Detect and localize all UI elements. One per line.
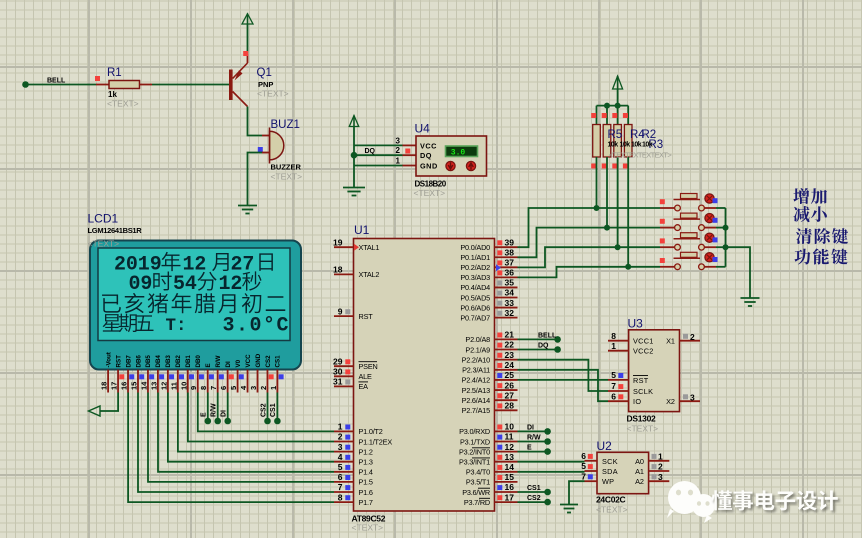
svg-text:DI: DI bbox=[225, 361, 232, 367]
svg-text:P1.7: P1.7 bbox=[359, 498, 373, 507]
svg-text:7: 7 bbox=[338, 482, 343, 492]
svg-text:P0.2/AD2: P0.2/AD2 bbox=[460, 263, 490, 272]
LCD1 pin 1 CS1 bbox=[269, 355, 284, 393]
U2 pin 1 A0 bbox=[649, 452, 670, 462]
svg-text:P2.5/A13: P2.5/A13 bbox=[462, 386, 491, 395]
watermark text shadow bbox=[713, 492, 839, 512]
U1 pin 16 P3.6 bbox=[495, 482, 518, 492]
svg-text:<TEXT>: <TEXT> bbox=[414, 188, 446, 198]
ground below U4 bbox=[343, 188, 365, 196]
svg-text:29: 29 bbox=[333, 356, 343, 366]
node DI below LCD bbox=[221, 393, 232, 425]
svg-text:BELL: BELL bbox=[538, 332, 557, 339]
U3 pin 1 bbox=[608, 341, 629, 351]
svg-text:P3.7/RD: P3.7/RD bbox=[464, 498, 490, 507]
svg-text:14: 14 bbox=[139, 381, 148, 390]
wire bus to ground bbox=[726, 247, 751, 297]
LCD1 pin 7 R/W bbox=[209, 355, 224, 392]
svg-text:<TEXT>: <TEXT> bbox=[257, 89, 289, 99]
wire LCD DB3 to P1.3 bbox=[168, 393, 334, 462]
wire LCD RST to terminal bbox=[100, 393, 118, 412]
wire P0.1 to key2 row bbox=[518, 228, 608, 258]
svg-text:7: 7 bbox=[611, 381, 616, 391]
U1 pin 13 P3.3 bbox=[495, 452, 518, 462]
svg-text:<TEXT>: <TEXT> bbox=[107, 99, 139, 109]
svg-text:BUZ1: BUZ1 bbox=[271, 119, 300, 131]
terminal arrow left bbox=[89, 406, 101, 416]
svg-text:P1.6: P1.6 bbox=[359, 488, 373, 497]
label decrease key bbox=[793, 206, 826, 222]
svg-text:P3.4/T0: P3.4/T0 bbox=[466, 468, 490, 477]
U1 pin 23 P2.2 bbox=[495, 350, 518, 360]
svg-text:5: 5 bbox=[229, 386, 238, 390]
svg-text:P3.3/INT1: P3.3/INT1 bbox=[459, 458, 490, 467]
wire LCD DB7 to P1.7 bbox=[128, 393, 334, 503]
svg-text:34: 34 bbox=[505, 288, 515, 298]
svg-text:GND: GND bbox=[420, 161, 438, 170]
svg-text:P0.7/AD7: P0.7/AD7 bbox=[460, 313, 490, 322]
svg-text:10k: 10k bbox=[608, 142, 619, 149]
U2 pin 7 WP bbox=[581, 471, 597, 481]
svg-text:54: 54 bbox=[173, 273, 197, 296]
svg-text:VCC1: VCC1 bbox=[633, 337, 654, 346]
U1 pin 7 P1.6 bbox=[334, 482, 354, 492]
svg-text:P2.3/A11: P2.3/A11 bbox=[462, 366, 490, 375]
svg-text:36: 36 bbox=[505, 268, 515, 278]
svg-text:SDA: SDA bbox=[602, 467, 618, 476]
svg-text:V0: V0 bbox=[235, 359, 242, 367]
svg-text:10: 10 bbox=[179, 382, 188, 390]
U3 pin 2 X1 bbox=[680, 332, 701, 342]
label increase key bbox=[793, 188, 827, 204]
ground below BUZ1 bbox=[238, 206, 257, 214]
U1 pin 31 EA bbox=[333, 377, 353, 387]
U1 right pin names bbox=[459, 243, 490, 507]
svg-text:8: 8 bbox=[338, 492, 343, 502]
svg-text:2: 2 bbox=[690, 332, 695, 342]
svg-text:CS2: CS2 bbox=[265, 355, 272, 368]
U1 pin 25 P2.4 bbox=[495, 370, 518, 380]
U1 pin 12 P3.2 bbox=[495, 442, 518, 452]
svg-text:P1.1/T2EX: P1.1/T2EX bbox=[359, 437, 393, 446]
svg-text:U3: U3 bbox=[628, 317, 644, 331]
LCD line1 date bbox=[114, 252, 273, 277]
LCD1 pin 9 DB0 bbox=[189, 355, 204, 393]
svg-text:DB0: DB0 bbox=[195, 355, 202, 368]
op-amp U3 body (DS1302) bbox=[629, 330, 680, 412]
U1 pin 26 P2.5 bbox=[495, 380, 518, 390]
wire WP to ground bbox=[569, 481, 585, 504]
U4 up knob bbox=[466, 161, 475, 170]
svg-text:P2.7/A15: P2.7/A15 bbox=[462, 406, 491, 415]
svg-text:DB2: DB2 bbox=[175, 355, 182, 368]
svg-text:P2.0/A8: P2.0/A8 bbox=[465, 335, 490, 344]
resistor R1 bbox=[109, 81, 140, 89]
wire key2 right bbox=[716, 227, 726, 229]
svg-text:16: 16 bbox=[505, 482, 515, 492]
U3 pin 3 X2 bbox=[680, 393, 701, 403]
svg-text:15: 15 bbox=[505, 472, 515, 482]
svg-text:13: 13 bbox=[149, 382, 158, 390]
svg-text:6: 6 bbox=[219, 386, 228, 390]
U3 pin 5 bbox=[608, 370, 629, 380]
svg-text:U1: U1 bbox=[354, 223, 370, 237]
svg-text:DB6: DB6 bbox=[135, 355, 142, 368]
svg-text:39: 39 bbox=[505, 237, 515, 247]
svg-text:DI: DI bbox=[527, 424, 534, 431]
svg-text:3.0°C: 3.0°C bbox=[223, 315, 291, 338]
svg-text:CS1: CS1 bbox=[270, 403, 277, 417]
svg-text:22: 22 bbox=[505, 340, 515, 350]
P0.2 blue marker bbox=[496, 264, 501, 271]
svg-text:1: 1 bbox=[269, 386, 278, 390]
U4 value labels bbox=[414, 180, 447, 199]
wire P0.3 to key4 row bbox=[518, 267, 629, 278]
svg-text:SCK: SCK bbox=[602, 457, 618, 466]
ground right of buttons bbox=[741, 298, 760, 306]
label clear key bbox=[796, 228, 848, 244]
U3 pin 7 bbox=[608, 381, 629, 391]
wire resistor top bus bbox=[597, 105, 629, 107]
svg-text:RST: RST bbox=[115, 355, 122, 368]
svg-text:P0.5/AD5: P0.5/AD5 bbox=[460, 293, 490, 302]
svg-text:35: 35 bbox=[505, 278, 515, 288]
LCD1 labels bbox=[88, 212, 143, 236]
op-amp U2 body (24C02C) bbox=[597, 452, 649, 493]
svg-text:17: 17 bbox=[110, 382, 119, 390]
power VCC above U4 bbox=[349, 116, 359, 127]
svg-text:U2: U2 bbox=[597, 439, 613, 453]
U1 pin 5 P1.4 bbox=[334, 462, 354, 472]
svg-text:R5: R5 bbox=[608, 129, 623, 141]
wire LCD DB1 to P1.1 bbox=[188, 393, 334, 442]
LCD line3 lunar bbox=[102, 293, 285, 313]
svg-text:7: 7 bbox=[209, 386, 218, 390]
svg-text:VCC2: VCC2 bbox=[633, 347, 654, 356]
svg-text:RST: RST bbox=[359, 312, 374, 321]
wire P0.2 to key3 row bbox=[518, 247, 618, 267]
svg-text:R/W: R/W bbox=[211, 403, 218, 417]
svg-text:DB3: DB3 bbox=[165, 355, 172, 368]
Q1 labels bbox=[257, 67, 289, 99]
svg-text:<TEXT>: <TEXT> bbox=[352, 523, 384, 533]
wire key2 left bbox=[607, 227, 660, 229]
wire Q1 emitter to power bbox=[247, 24, 249, 63]
wire P2.2 to SCLK bbox=[518, 360, 609, 391]
U1 left pin names bbox=[359, 243, 393, 507]
U1 pin 34 P0.5 bbox=[495, 288, 518, 298]
U1 pin 4 P1.3 bbox=[334, 452, 354, 462]
svg-text:Q1: Q1 bbox=[257, 67, 272, 79]
LCD1 pin 10 DB1 bbox=[179, 355, 194, 393]
svg-text:3: 3 bbox=[396, 136, 401, 145]
svg-text:DS1302: DS1302 bbox=[627, 414, 656, 424]
svg-text:12: 12 bbox=[219, 273, 243, 296]
svg-text:P3.5/T1: P3.5/T1 bbox=[466, 478, 490, 487]
resistor R5 bbox=[591, 106, 600, 211]
svg-text:16: 16 bbox=[120, 382, 129, 390]
node R/W at P3.1 bbox=[518, 438, 551, 445]
node DQ at P2.1 bbox=[518, 346, 561, 353]
wire P3.3 to U2 SCK bbox=[518, 461, 585, 463]
svg-text:37: 37 bbox=[505, 258, 515, 268]
svg-text:P3.6/WR: P3.6/WR bbox=[462, 488, 490, 497]
svg-text:31: 31 bbox=[333, 377, 343, 387]
svg-text:VCC: VCC bbox=[245, 354, 252, 368]
U4 down knob bbox=[446, 161, 455, 170]
U1 pin 2 P1.1/T2EX bbox=[334, 432, 354, 442]
LCD line2 time bbox=[129, 271, 262, 296]
svg-text:XTAL1: XTAL1 bbox=[359, 243, 380, 252]
svg-text:EA: EA bbox=[359, 382, 369, 391]
U3 pin names bbox=[633, 337, 675, 407]
U1 pin 9 RST bbox=[334, 306, 354, 316]
svg-text:10k: 10k bbox=[642, 142, 653, 149]
svg-text:VCC: VCC bbox=[420, 141, 437, 150]
op-amp U1 body (AT89C52) bbox=[354, 239, 495, 512]
U1 pin 18 XTAL2 bbox=[333, 265, 353, 275]
U2 pin names bbox=[602, 457, 644, 486]
U2 pin 6 SCK bbox=[581, 451, 597, 461]
node E at P3.2 bbox=[518, 448, 551, 455]
svg-text:9: 9 bbox=[189, 386, 198, 390]
svg-text:27: 27 bbox=[505, 390, 515, 400]
svg-text:6: 6 bbox=[338, 472, 343, 482]
svg-text:09: 09 bbox=[129, 273, 153, 296]
svg-text:CS1: CS1 bbox=[275, 355, 282, 368]
svg-text:WP: WP bbox=[602, 477, 614, 486]
svg-text:3: 3 bbox=[658, 472, 663, 482]
svg-text:XTAL2: XTAL2 bbox=[359, 270, 380, 279]
wire P2.3 to IO bbox=[518, 370, 609, 401]
U1 pin 36 P0.3 bbox=[495, 268, 518, 278]
wire LCD DB6 to P1.6 bbox=[138, 393, 334, 493]
svg-text:A2: A2 bbox=[635, 477, 644, 486]
svg-text:DQ: DQ bbox=[365, 148, 376, 155]
svg-text:A0: A0 bbox=[635, 457, 644, 466]
svg-text:P1.3: P1.3 bbox=[359, 458, 373, 467]
svg-text:SCLK: SCLK bbox=[633, 387, 653, 396]
wire LCD DB5 to P1.5 bbox=[148, 393, 334, 482]
svg-text:7: 7 bbox=[581, 471, 586, 481]
U1 pin 28 P2.7 bbox=[495, 401, 518, 411]
svg-text:DQ: DQ bbox=[538, 342, 549, 349]
svg-text:<TEXT>: <TEXT> bbox=[271, 172, 303, 182]
svg-text:RST: RST bbox=[633, 376, 649, 385]
svg-text:13: 13 bbox=[505, 452, 515, 462]
LCD1 pin 16 DB7 bbox=[120, 355, 135, 393]
svg-text:24: 24 bbox=[505, 360, 515, 370]
svg-text:U4: U4 bbox=[415, 122, 431, 136]
U1 pin 11 P3.1 bbox=[495, 432, 518, 442]
node CS1 below LCD bbox=[270, 393, 281, 425]
U1 pin 29 PSEN bbox=[333, 356, 353, 366]
wire P2.4 to RST bbox=[518, 379, 609, 381]
svg-text:19: 19 bbox=[333, 237, 343, 247]
pin indicator BUZ1 bbox=[258, 147, 263, 152]
svg-text:P0.3/AD3: P0.3/AD3 bbox=[460, 273, 490, 282]
pin numbers U4 bbox=[396, 136, 401, 165]
LCD1 body bbox=[90, 241, 301, 370]
transistor Q1 bbox=[229, 63, 248, 107]
watermark text bbox=[711, 490, 837, 510]
svg-text:17: 17 bbox=[505, 492, 515, 502]
U3 pin 8 bbox=[608, 331, 629, 341]
svg-text:14: 14 bbox=[505, 462, 515, 472]
LCD1 pin 2 CS2 bbox=[259, 355, 274, 393]
svg-text:5: 5 bbox=[581, 461, 586, 471]
svg-text:6: 6 bbox=[581, 451, 586, 461]
svg-text:11: 11 bbox=[169, 382, 178, 390]
op-amp U4 body (DS18B20) bbox=[416, 136, 487, 176]
svg-text:2: 2 bbox=[658, 462, 663, 472]
svg-text:X1: X1 bbox=[666, 337, 675, 346]
svg-text:P3.0/RXD: P3.0/RXD bbox=[459, 427, 490, 436]
svg-text:8: 8 bbox=[611, 331, 616, 341]
svg-text:2: 2 bbox=[259, 386, 268, 390]
LCD1 pin 3 GND bbox=[249, 353, 262, 392]
svg-text:5: 5 bbox=[338, 462, 343, 472]
svg-text:26: 26 bbox=[505, 380, 515, 390]
wire P0.0 to key1 row bbox=[518, 208, 597, 247]
svg-text:3.0: 3.0 bbox=[451, 149, 466, 158]
svg-text:<TEXTEXTEXTEXT>: <TEXTEXTEXTEXT> bbox=[609, 151, 673, 160]
watermark wechat icon bbox=[667, 481, 715, 523]
svg-text:R/W: R/W bbox=[215, 355, 222, 367]
svg-text:3: 3 bbox=[249, 386, 258, 390]
svg-text:P0.1/AD1: P0.1/AD1 bbox=[460, 253, 490, 262]
U1 pin 22 P2.1 bbox=[495, 340, 518, 350]
wire key3 right bbox=[716, 246, 726, 248]
svg-text:10k: 10k bbox=[631, 142, 642, 149]
svg-text:25: 25 bbox=[505, 370, 515, 380]
svg-text:12: 12 bbox=[159, 382, 168, 390]
wire button bus bbox=[725, 208, 727, 267]
svg-text:12: 12 bbox=[505, 442, 515, 452]
U3 pin 6 bbox=[608, 391, 629, 401]
wire LCD DB4 to P1.4 bbox=[158, 393, 334, 472]
U1 pin 8 P1.7 bbox=[334, 492, 354, 502]
svg-text:3: 3 bbox=[690, 393, 695, 403]
svg-text:P2.1/A9: P2.1/A9 bbox=[465, 345, 490, 354]
U1 value labels bbox=[352, 514, 386, 533]
U1 pin 15 P3.5 bbox=[495, 472, 518, 482]
svg-text:1: 1 bbox=[611, 341, 616, 351]
LCD1 pin 6 DI bbox=[219, 361, 234, 392]
R1 labels bbox=[107, 67, 139, 109]
svg-text:38: 38 bbox=[505, 247, 515, 257]
wire key3 left bbox=[618, 246, 660, 248]
svg-text:2: 2 bbox=[338, 432, 343, 442]
svg-text:15: 15 bbox=[130, 382, 139, 390]
svg-text:18: 18 bbox=[333, 265, 343, 275]
buzzer BUZ1 bbox=[270, 128, 284, 164]
node DQ wire to U4 pin2 bbox=[351, 152, 416, 159]
LCD1 pin 12 DB3 bbox=[159, 355, 174, 393]
node CS2 at P3.7 bbox=[518, 499, 551, 506]
svg-text:DB7: DB7 bbox=[125, 355, 132, 368]
svg-text:18: 18 bbox=[100, 382, 109, 390]
svg-text:P2.4/A12: P2.4/A12 bbox=[462, 376, 491, 385]
LCD1 pin 13 DB4 bbox=[149, 355, 164, 393]
U2 pin 3 A2 bbox=[649, 472, 670, 482]
svg-text:3: 3 bbox=[338, 442, 343, 452]
svg-text:P0.6/AD6: P0.6/AD6 bbox=[460, 303, 490, 312]
svg-text:5: 5 bbox=[611, 370, 616, 380]
svg-text:CS1: CS1 bbox=[527, 485, 541, 492]
LCD1 pin 15 DB6 bbox=[130, 355, 145, 393]
svg-text:24C02C: 24C02C bbox=[596, 495, 626, 505]
svg-text:1: 1 bbox=[658, 452, 663, 462]
resistor R2 bbox=[612, 106, 621, 251]
wire key4 right bbox=[716, 266, 726, 268]
label function key bbox=[794, 248, 847, 264]
svg-text:9: 9 bbox=[338, 306, 343, 316]
svg-text:P0.4/AD4: P0.4/AD4 bbox=[460, 283, 490, 292]
svg-text:P1.4: P1.4 bbox=[359, 468, 373, 477]
LCD1 pin 8 E bbox=[199, 363, 214, 392]
LCD1 pin 18 -Vout bbox=[100, 352, 113, 392]
svg-text:ALE: ALE bbox=[359, 372, 373, 381]
wire U4 power/gnd rail bbox=[353, 127, 355, 188]
wire GND to U4 pin1 bbox=[354, 165, 416, 167]
svg-text:CS2: CS2 bbox=[527, 495, 541, 502]
resistor bank labels bbox=[608, 129, 673, 160]
svg-text:<TEXT>: <TEXT> bbox=[88, 239, 120, 249]
U1 pin 6 P1.5 bbox=[334, 472, 354, 482]
U1 pin 19 XTAL1 bbox=[333, 237, 353, 247]
U4 pin names bbox=[420, 141, 438, 170]
LCD1 pin 17 RST bbox=[110, 355, 125, 393]
svg-text:21: 21 bbox=[505, 330, 515, 340]
power VCC above resistor bank bbox=[613, 76, 623, 89]
U1 pin 24 P2.3 bbox=[495, 360, 518, 370]
svg-text:23: 23 bbox=[505, 350, 515, 360]
svg-text:10: 10 bbox=[505, 422, 515, 432]
LCD1 pin 5 V0 bbox=[229, 359, 244, 392]
pin indicator U4 pin2 bbox=[405, 149, 410, 154]
svg-text:DQ: DQ bbox=[420, 151, 432, 160]
svg-text:LGM12641BS1R: LGM12641BS1R bbox=[88, 226, 143, 235]
node CS1 at P3.6 bbox=[518, 489, 551, 496]
svg-text:E: E bbox=[527, 445, 532, 452]
svg-text:-Vout: -Vout bbox=[105, 352, 112, 367]
wire Q1 collector to BUZ1 bbox=[248, 107, 263, 136]
U1 pin 3 P1.2 bbox=[334, 442, 354, 452]
U2 value labels bbox=[596, 495, 628, 515]
pin indicator Q1 emitter bbox=[243, 51, 248, 56]
wire key1 right bbox=[716, 207, 726, 209]
wire P3.4 to U2 SDA bbox=[518, 471, 585, 473]
svg-text:R1: R1 bbox=[107, 67, 122, 79]
svg-text:GND: GND bbox=[255, 353, 262, 367]
U3 value labels bbox=[627, 414, 659, 434]
node E below LCD bbox=[201, 393, 212, 425]
power VCC above Q1 bbox=[242, 14, 253, 24]
svg-text:LCD1: LCD1 bbox=[88, 212, 119, 226]
push button key3 bbox=[660, 233, 718, 250]
svg-text:32: 32 bbox=[505, 308, 515, 318]
LCD1 pin 4 VCC bbox=[239, 354, 252, 393]
svg-text:DB4: DB4 bbox=[155, 355, 162, 368]
wire LCD DB0 to P1.0 bbox=[198, 393, 334, 432]
svg-text:2: 2 bbox=[396, 146, 401, 155]
U1 pin 35 P0.4 bbox=[495, 278, 518, 288]
U1 pin 38 P0.1 bbox=[495, 247, 518, 257]
svg-text:CS2: CS2 bbox=[260, 403, 267, 417]
U1 pin 17 P3.7 bbox=[495, 492, 518, 502]
svg-text:DB5: DB5 bbox=[145, 355, 152, 368]
